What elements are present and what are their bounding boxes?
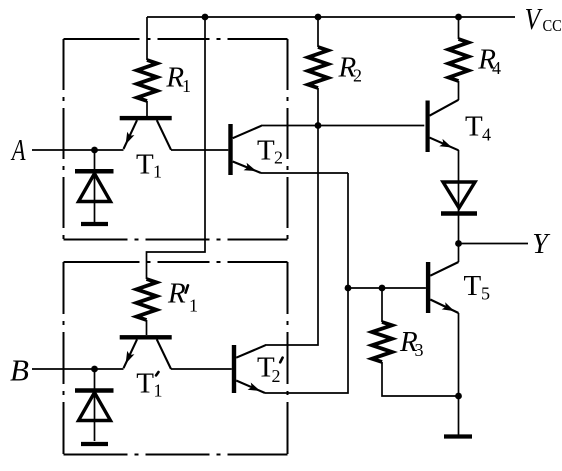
svg-text:T: T — [136, 368, 154, 400]
svg-text:1: 1 — [153, 162, 162, 182]
svg-text:3: 3 — [415, 340, 424, 360]
svg-text:A: A — [10, 132, 26, 166]
svg-text:B: B — [10, 353, 29, 388]
svg-text:V: V — [525, 3, 544, 37]
svg-text:CC: CC — [543, 17, 562, 35]
svg-text:4: 4 — [492, 58, 501, 78]
svg-text:Y: Y — [532, 229, 551, 260]
svg-text:T: T — [257, 135, 275, 167]
svg-text:1: 1 — [154, 381, 163, 401]
svg-text:2: 2 — [272, 366, 281, 386]
svg-text:2: 2 — [274, 148, 283, 168]
svg-text:T: T — [465, 111, 483, 143]
svg-text:T: T — [136, 148, 154, 180]
svg-text:T: T — [464, 270, 482, 302]
svg-text:4: 4 — [482, 124, 491, 144]
svg-text:1: 1 — [189, 296, 198, 316]
svg-text:R: R — [167, 277, 186, 309]
svg-text:1: 1 — [182, 76, 191, 96]
svg-text:5: 5 — [481, 284, 490, 304]
svg-text:2: 2 — [353, 66, 362, 86]
